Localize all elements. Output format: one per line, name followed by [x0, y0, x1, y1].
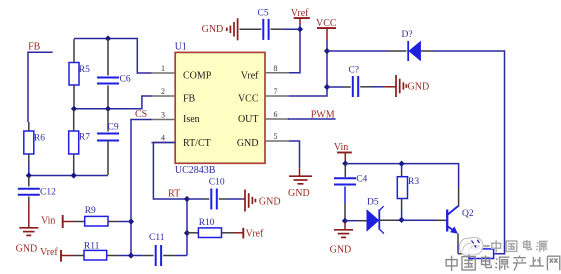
node D5/R3/base junction	[399, 217, 405, 223]
wire C11 up to RT node	[186, 199, 188, 256]
node C6 top	[105, 35, 111, 41]
resistor R11	[73, 255, 84, 257]
svg-text:R3: R3	[408, 177, 419, 187]
svg-text:FB: FB	[183, 93, 196, 104]
pin 5 stub	[265, 140, 289, 142]
wire FB to R6	[28, 122, 30, 131]
svg-text:R11: R11	[84, 242, 100, 252]
svg-text:C10: C10	[209, 178, 225, 188]
svg-text:Vref: Vref	[40, 247, 58, 258]
ground below C4	[334, 229, 353, 231]
watermark text line 2	[446, 256, 457, 271]
svg-text:R5: R5	[79, 65, 90, 75]
transistor Q2	[446, 210, 448, 232]
resistor R3	[401, 164, 403, 171]
svg-text:5: 5	[274, 132, 278, 141]
wire VCC down to pin7	[289, 41, 327, 96]
wire top rail right	[345, 164, 458, 188]
svg-text:Vin: Vin	[41, 215, 55, 226]
pin 6 stub	[265, 118, 289, 120]
svg-text:Vin: Vin	[334, 142, 348, 153]
wire base node to Q2	[402, 219, 437, 221]
svg-text:R7: R7	[79, 133, 90, 143]
diode D5 zener	[345, 220, 358, 222]
wire D5 to base node	[380, 219, 397, 221]
node C4/D5 junction	[342, 218, 348, 224]
wire Vref down to pin8	[289, 24, 300, 73]
svg-text:RT: RT	[168, 188, 180, 199]
pin 8 stub	[265, 72, 289, 74]
capacitor C5	[283, 28, 300, 30]
svg-text:D5: D5	[367, 198, 379, 208]
watermark dash	[484, 245, 490, 247]
op-amp U1 UC2843B body	[175, 52, 265, 163]
resistor R4	[458, 253, 469, 255]
svg-text:C5: C5	[258, 9, 269, 19]
node Vref/C5 junction	[297, 26, 303, 32]
wire rail lower (R6/R7/C9)	[29, 163, 108, 176]
svg-text:GND: GND	[288, 188, 310, 199]
svg-text:6: 6	[274, 110, 278, 119]
node C6 bottom	[105, 106, 111, 112]
ground below C12	[19, 227, 38, 229]
wire FB stub	[28, 52, 53, 122]
capacitor C11	[131, 255, 143, 257]
pin 4 stub	[152, 142, 176, 144]
resistor R9	[74, 221, 85, 223]
wire rail top (R5/C6 to pin1)	[74, 39, 152, 74]
svg-text:CS: CS	[135, 109, 147, 120]
svg-text:Vref: Vref	[241, 70, 259, 81]
svg-text:GND: GND	[237, 138, 259, 149]
svg-text:R6: R6	[34, 133, 45, 143]
svg-text:U1: U1	[175, 42, 187, 53]
watermark logo	[459, 237, 483, 255]
node R9 junction	[128, 218, 134, 224]
node VCC/D7 junction	[324, 48, 330, 54]
svg-text:COMP: COMP	[183, 70, 212, 81]
port Vref right of R10	[242, 228, 244, 239]
svg-text:GND: GND	[408, 81, 430, 92]
node R3 top	[399, 161, 405, 167]
wire rail mid (to pin2)	[74, 96, 152, 109]
svg-text:4: 4	[161, 134, 165, 143]
capacitor C6	[97, 77, 119, 79]
wire C12 to ground	[28, 203, 30, 228]
svg-text:C11: C11	[149, 233, 165, 243]
resistor R10	[187, 232, 198, 234]
svg-text:Vref: Vref	[246, 229, 264, 240]
svg-text:R9: R9	[85, 206, 96, 216]
svg-text:GND: GND	[16, 243, 38, 254]
svg-text:3: 3	[161, 111, 165, 120]
svg-text:C4: C4	[356, 175, 367, 185]
svg-text:D?: D?	[402, 30, 413, 40]
svg-text:VCC: VCC	[238, 93, 259, 104]
svg-text:7: 7	[274, 87, 278, 96]
svg-text:FB: FB	[28, 41, 41, 52]
resistor R5	[69, 63, 79, 86]
svg-text:8: 8	[274, 64, 278, 73]
pin 2 stub	[152, 95, 176, 97]
diode D7	[327, 50, 388, 52]
ground left of C5	[237, 18, 239, 40]
node R7 bottom	[71, 172, 77, 178]
svg-text:1: 1	[161, 64, 165, 73]
wire pin6 PWM	[288, 118, 336, 120]
capacitor C4	[344, 164, 346, 178]
wire D7 to right rail	[433, 51, 505, 254]
node R10 junction	[184, 230, 190, 236]
capacitor C10	[187, 198, 203, 200]
pin 1 stub	[152, 72, 176, 74]
resistor R7	[69, 131, 79, 154]
pin 7 stub	[265, 95, 289, 97]
svg-text:C12: C12	[40, 187, 56, 197]
node RT junction	[184, 196, 190, 202]
node VCC/C7 junction	[324, 84, 330, 90]
node R5 bottom	[71, 106, 77, 112]
watermark text line 1	[492, 240, 501, 252]
svg-text:OUT: OUT	[238, 114, 259, 125]
wire pin3 to CS rail	[131, 120, 152, 256]
svg-text:UC2843B: UC2843B	[175, 165, 216, 176]
wire pin5 to ground	[289, 141, 300, 168]
node Vin junction	[342, 160, 348, 166]
ground below pin5	[289, 175, 312, 177]
node R11/C11 junction	[128, 252, 134, 258]
svg-text:GND: GND	[259, 197, 281, 208]
svg-text:RT/CT: RT/CT	[183, 138, 211, 149]
svg-text:C?: C?	[349, 66, 360, 76]
capacitor C12	[18, 188, 40, 190]
wire C7 to sideways ground	[384, 86, 396, 88]
ground right of C10	[244, 190, 246, 212]
svg-text:Isen: Isen	[183, 114, 200, 125]
svg-text:GND: GND	[330, 245, 352, 256]
svg-text:Q2: Q2	[462, 209, 474, 219]
svg-text:2: 2	[161, 87, 165, 96]
svg-text:GND: GND	[202, 24, 224, 35]
capacitor C7	[327, 86, 344, 88]
svg-text:C9: C9	[108, 123, 119, 133]
wire Q2 emitter down	[457, 234, 459, 245]
capacitor C9	[97, 133, 119, 135]
wire C10 to sideways ground	[242, 198, 245, 200]
pin 3 stub	[152, 119, 176, 121]
ground right of C7	[395, 75, 397, 97]
wire pin4 down to RT node	[153, 142, 175, 144]
resistor R6	[24, 131, 34, 154]
svg-text:R10: R10	[199, 218, 215, 228]
svg-text:C6: C6	[120, 75, 131, 85]
node R6 bottom	[26, 172, 32, 178]
wire C4 to ground	[344, 222, 346, 230]
